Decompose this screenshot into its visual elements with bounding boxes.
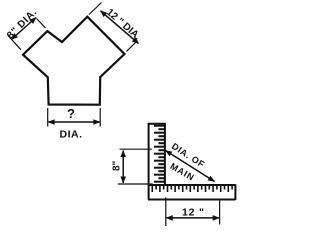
svg-text:12 " DIA.: 12 " DIA.	[104, 7, 143, 43]
svg-text:MAIN: MAIN	[169, 161, 197, 183]
svg-text:DIA.: DIA.	[60, 129, 83, 141]
svg-text:12 ": 12 "	[182, 207, 205, 219]
svg-text:?: ?	[67, 106, 75, 121]
svg-text:8": 8"	[112, 160, 123, 171]
svg-text:8" DIA.: 8" DIA.	[5, 7, 40, 42]
